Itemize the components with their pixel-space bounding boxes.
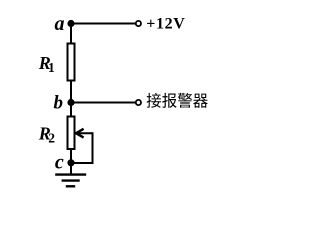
svg-text:c: c — [55, 152, 64, 174]
node b junction dot — [67, 99, 74, 106]
terminal to alarm — [136, 100, 141, 105]
wire node b to alarm terminal — [71, 102, 135, 104]
svg-text:a: a — [55, 13, 65, 35]
terminal +12V — [136, 21, 141, 26]
wire node a to R1 — [70, 24, 72, 44]
wire R2 to node c — [70, 149, 72, 163]
svg-text:1: 1 — [48, 60, 55, 75]
label 接报警器 (connect to alarm) — [147, 93, 208, 108]
wire wiper down to node c — [71, 132, 94, 164]
node a junction dot — [67, 20, 74, 27]
wire node a to +12V terminal — [71, 23, 135, 25]
wire node b to R2 — [70, 103, 72, 117]
ground — [55, 163, 86, 187]
R2 wiper arrow — [76, 129, 93, 138]
svg-text:+12V: +12V — [146, 16, 185, 33]
resistor R2 (rheostat body) — [68, 117, 75, 150]
svg-text:b: b — [54, 92, 64, 113]
label R2 — [38, 124, 56, 146]
label R1 — [38, 53, 55, 75]
node c junction dot — [67, 159, 74, 166]
wire R1 to node b — [70, 81, 72, 103]
svg-text:2: 2 — [48, 131, 55, 146]
resistor R1 — [68, 44, 75, 81]
